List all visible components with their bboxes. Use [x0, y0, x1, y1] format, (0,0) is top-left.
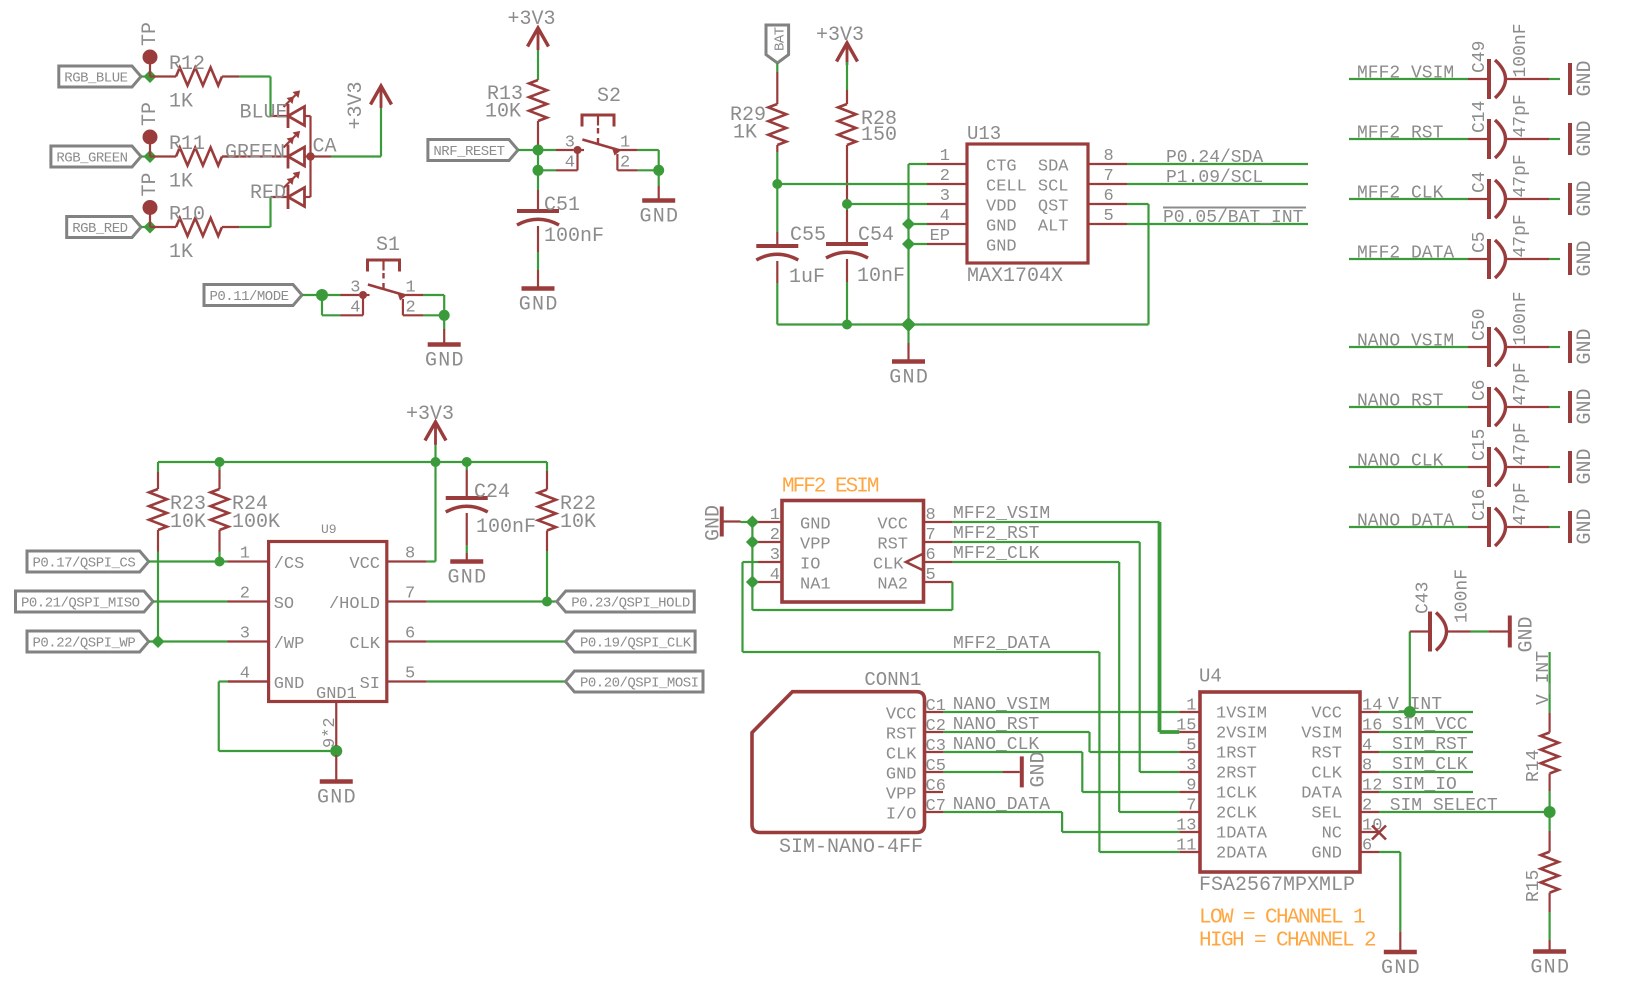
svg-text:100nF: 100nF — [1511, 23, 1531, 77]
svg-text:VCC: VCC — [886, 706, 917, 725]
svg-text:IO: IO — [800, 556, 820, 575]
svg-text:C50: C50 — [1470, 309, 1490, 341]
svg-text:CLK: CLK — [873, 556, 904, 575]
svg-text:C55: C55 — [790, 224, 826, 247]
svg-text:R12: R12 — [169, 53, 205, 76]
svg-text:GND: GND — [1574, 328, 1597, 364]
svg-text:C2: C2 — [926, 717, 946, 736]
svg-text:100nF: 100nF — [1453, 569, 1473, 623]
svg-text:VCC: VCC — [349, 555, 380, 574]
svg-text:GND: GND — [425, 350, 465, 373]
svg-text:1RST: 1RST — [1216, 745, 1257, 764]
svg-text:I/O: I/O — [886, 806, 917, 825]
svg-text:100K: 100K — [232, 511, 280, 534]
svg-text:DATA: DATA — [1301, 785, 1343, 804]
svg-text:100nF: 100nF — [544, 225, 604, 248]
svg-text:SIM-NANO-4FF: SIM-NANO-4FF — [779, 836, 923, 859]
svg-text:MAX1704X: MAX1704X — [967, 265, 1063, 288]
svg-text:GND: GND — [317, 787, 357, 810]
svg-text:RGB_BLUE: RGB_BLUE — [64, 71, 127, 87]
svg-text:GND: GND — [1381, 957, 1421, 980]
svg-text:P0.17/QSPI_CS: P0.17/QSPI_CS — [33, 556, 136, 572]
svg-text:GND: GND — [1574, 448, 1597, 484]
svg-text:P1.09/SCL: P1.09/SCL — [1166, 168, 1263, 188]
svg-text:SO: SO — [274, 595, 294, 614]
svg-text:R14: R14 — [1524, 750, 1544, 782]
svg-text:R15: R15 — [1524, 870, 1544, 902]
svg-text:GND: GND — [986, 238, 1017, 257]
svg-text:GND: GND — [1574, 240, 1597, 276]
svg-text:MFF2_DATA: MFF2_DATA — [1357, 244, 1454, 264]
svg-text:CELL: CELL — [986, 178, 1027, 197]
svg-text:CTG: CTG — [986, 158, 1017, 177]
svg-text:SEL: SEL — [1311, 805, 1342, 824]
svg-text:1uF: 1uF — [789, 266, 825, 289]
svg-text:GND: GND — [1574, 120, 1597, 156]
svg-text:CLK: CLK — [1311, 765, 1342, 784]
svg-text:V_INT: V_INT — [1534, 651, 1554, 705]
svg-text:/CS: /CS — [274, 555, 305, 574]
svg-text:VSIM: VSIM — [1301, 725, 1342, 744]
svg-text:C51: C51 — [544, 194, 580, 217]
svg-text:C4: C4 — [1470, 171, 1490, 193]
svg-text:47pF: 47pF — [1511, 422, 1531, 465]
svg-text:SDA: SDA — [1038, 158, 1069, 177]
svg-text:NANO_RST: NANO_RST — [1357, 392, 1444, 412]
svg-text:GND: GND — [1574, 180, 1597, 216]
svg-text:C43: C43 — [1414, 582, 1434, 614]
svg-text:GND: GND — [1311, 845, 1342, 864]
svg-text:+3V3: +3V3 — [507, 8, 555, 31]
svg-text:10nF: 10nF — [857, 265, 905, 288]
svg-text:47pF: 47pF — [1511, 214, 1531, 257]
svg-text:150: 150 — [861, 124, 897, 147]
svg-text:SI: SI — [360, 675, 380, 694]
svg-text:3: 3 — [565, 134, 575, 153]
svg-text:CLK: CLK — [886, 746, 917, 765]
svg-text:2CLK: 2CLK — [1216, 805, 1258, 824]
svg-text:1K: 1K — [733, 122, 757, 145]
svg-text:FSA2567MPXMLP: FSA2567MPXMLP — [1199, 874, 1355, 897]
svg-text:RGB_GREEN: RGB_GREEN — [56, 151, 127, 167]
svg-text:VPP: VPP — [886, 786, 917, 805]
svg-text:MFF2_DATA: MFF2_DATA — [953, 634, 1050, 654]
svg-text:NRF_RESET: NRF_RESET — [433, 144, 504, 160]
svg-text:S1: S1 — [376, 234, 400, 257]
svg-text:NANO_CLK: NANO_CLK — [1357, 452, 1444, 472]
svg-text:R11: R11 — [169, 133, 205, 156]
svg-text:C6: C6 — [926, 777, 946, 796]
svg-text:C3: C3 — [926, 737, 946, 756]
svg-text:NC: NC — [1322, 825, 1342, 844]
svg-text:LOW = CHANNEL 1: LOW = CHANNEL 1 — [1199, 907, 1365, 930]
svg-text:RST: RST — [877, 536, 908, 555]
svg-text:P0.19/QSPI_CLK: P0.19/QSPI_CLK — [580, 636, 692, 652]
svg-text:MFF2_CLK: MFF2_CLK — [1357, 184, 1444, 204]
svg-text:1K: 1K — [169, 241, 193, 264]
svg-text:/WP: /WP — [274, 635, 305, 654]
svg-text:47pF: 47pF — [1511, 362, 1531, 405]
svg-text:1K: 1K — [169, 91, 193, 114]
svg-text:MFF2_VSIM: MFF2_VSIM — [1357, 64, 1454, 84]
svg-text:RED: RED — [250, 182, 286, 205]
svg-text:4: 4 — [350, 299, 360, 318]
svg-text:P0.23/QSPI_HOLD: P0.23/QSPI_HOLD — [571, 596, 690, 612]
svg-text:GREEN: GREEN — [225, 142, 285, 165]
svg-text:NA2: NA2 — [877, 576, 908, 595]
svg-text:P0.21/QSPI_MISO: P0.21/QSPI_MISO — [21, 596, 140, 612]
svg-text:ALT: ALT — [1038, 218, 1069, 237]
svg-text:RGB_RED: RGB_RED — [72, 221, 127, 237]
svg-text:1DATA: 1DATA — [1216, 825, 1268, 844]
svg-text:GND: GND — [274, 675, 305, 694]
svg-text:VCC: VCC — [1311, 705, 1342, 724]
svg-text:VDD: VDD — [986, 198, 1017, 217]
svg-text:P0.24/SDA: P0.24/SDA — [1166, 148, 1263, 168]
svg-text:GND: GND — [703, 505, 726, 541]
svg-text:HIGH = CHANNEL 2: HIGH = CHANNEL 2 — [1199, 930, 1376, 953]
svg-text:10K: 10K — [170, 511, 206, 534]
svg-text:C1: C1 — [926, 697, 946, 716]
svg-text:+3V3: +3V3 — [406, 403, 454, 426]
svg-text:P0.05/BAT_INT: P0.05/BAT_INT — [1163, 208, 1304, 228]
svg-text:C7: C7 — [926, 797, 946, 816]
svg-text:U4: U4 — [1199, 666, 1222, 688]
svg-text:2VSIM: 2VSIM — [1216, 725, 1267, 744]
svg-text:47pF: 47pF — [1511, 482, 1531, 525]
svg-text:BLUE: BLUE — [239, 102, 287, 125]
svg-text:RST: RST — [1311, 745, 1342, 764]
svg-text:10K: 10K — [485, 101, 521, 124]
svg-text:NANO_VSIM: NANO_VSIM — [1357, 332, 1454, 352]
svg-text:GND: GND — [1574, 508, 1597, 544]
svg-text:SCL: SCL — [1038, 178, 1069, 197]
svg-text:47pF: 47pF — [1511, 154, 1531, 197]
svg-text:4: 4 — [565, 154, 575, 173]
svg-text:GND: GND — [1028, 751, 1051, 787]
svg-text:U13: U13 — [967, 123, 1001, 145]
svg-text:3: 3 — [350, 279, 360, 298]
svg-text:C5: C5 — [926, 757, 946, 776]
svg-text:CA: CA — [313, 136, 337, 159]
svg-text:NANO_DATA: NANO_DATA — [1357, 512, 1454, 532]
svg-text:QST: QST — [1038, 198, 1069, 217]
svg-text:CONN1: CONN1 — [864, 669, 921, 691]
svg-text:C24: C24 — [474, 481, 510, 504]
svg-text:NA1: NA1 — [800, 576, 831, 595]
svg-text:/HOLD: /HOLD — [329, 595, 380, 614]
svg-text:100nF: 100nF — [1511, 291, 1531, 345]
svg-text:GND: GND — [519, 294, 559, 317]
svg-text:MFF2_RST: MFF2_RST — [1357, 124, 1444, 144]
svg-text:MFF2 ESIM: MFF2 ESIM — [782, 476, 879, 499]
svg-text:C16: C16 — [1470, 489, 1490, 521]
svg-text:RST: RST — [886, 726, 917, 745]
svg-text:1VSIM: 1VSIM — [1216, 705, 1267, 724]
svg-text:C6: C6 — [1470, 379, 1490, 401]
svg-text:TP: TP — [139, 22, 162, 46]
svg-text:GND: GND — [986, 218, 1017, 237]
svg-text:GND: GND — [447, 567, 487, 590]
svg-text:GND1: GND1 — [316, 685, 357, 704]
svg-text:47pF: 47pF — [1511, 94, 1531, 137]
svg-text:GND: GND — [800, 516, 831, 535]
svg-text:TP: TP — [139, 102, 162, 126]
svg-text:GND: GND — [886, 766, 917, 785]
svg-text:9*2: 9*2 — [321, 717, 340, 748]
svg-text:U9: U9 — [321, 522, 337, 537]
svg-text:+3V3: +3V3 — [345, 81, 368, 129]
svg-text:GND: GND — [639, 206, 679, 229]
svg-text:GND: GND — [889, 367, 929, 390]
svg-text:C15: C15 — [1470, 429, 1490, 461]
svg-text:100nF: 100nF — [476, 516, 536, 539]
svg-text:TP: TP — [139, 172, 162, 196]
svg-text:1K: 1K — [169, 171, 193, 194]
svg-text:2DATA: 2DATA — [1216, 845, 1268, 864]
svg-text:GND: GND — [1516, 616, 1539, 652]
svg-text:S2: S2 — [597, 85, 621, 108]
svg-text:C54: C54 — [858, 224, 894, 247]
svg-text:C49: C49 — [1470, 41, 1490, 73]
svg-text:GND: GND — [1530, 957, 1570, 980]
svg-text:10K: 10K — [560, 511, 596, 534]
svg-text:+3V3: +3V3 — [816, 24, 864, 47]
svg-text:GND: GND — [1574, 60, 1597, 96]
svg-text:2RST: 2RST — [1216, 765, 1257, 784]
svg-text:BAT: BAT — [773, 27, 789, 51]
svg-text:P0.11/MODE: P0.11/MODE — [210, 289, 289, 305]
svg-text:VPP: VPP — [800, 536, 831, 555]
svg-text:P0.22/QSPI_WP: P0.22/QSPI_WP — [33, 636, 136, 652]
svg-text:C14: C14 — [1470, 101, 1490, 133]
svg-text:GND: GND — [1574, 388, 1597, 424]
svg-text:P0.20/QSPI_MOSI: P0.20/QSPI_MOSI — [580, 676, 699, 692]
svg-text:R10: R10 — [169, 204, 205, 227]
svg-text:C5: C5 — [1470, 231, 1490, 253]
svg-text:1CLK: 1CLK — [1216, 785, 1258, 804]
svg-text:VCC: VCC — [877, 516, 908, 535]
svg-text:CLK: CLK — [349, 635, 380, 654]
